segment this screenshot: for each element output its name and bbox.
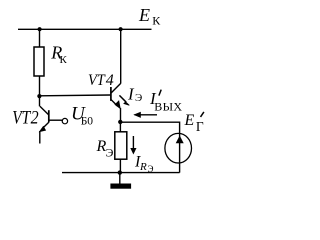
node junction VT4 base / left vertical	[37, 94, 41, 98]
label Eг	[184, 112, 204, 134]
current source Eг circle	[165, 133, 192, 163]
current arrow IRэ	[130, 136, 136, 155]
wire output to source Eг	[120, 122, 179, 134]
node junction bottom / ground	[118, 170, 122, 174]
svg-text:E: E	[138, 5, 150, 25]
current source arrow up	[176, 136, 184, 144]
svg-text:VT: VT	[12, 109, 31, 129]
transistor VT4	[111, 29, 121, 122]
current arrow Iэ	[119, 95, 129, 105]
svg-text:4: 4	[106, 72, 114, 89]
svg-text:К: К	[152, 14, 161, 28]
node junction top rail / Rк	[38, 27, 42, 31]
wire left vertical to Rк	[39, 29, 41, 47]
svg-text:2: 2	[31, 109, 39, 129]
label IRэ	[134, 153, 154, 174]
svg-text:Э: Э	[135, 92, 142, 104]
svg-text:Э: Э	[106, 146, 114, 160]
svg-text:Г: Г	[196, 119, 204, 134]
transistor VT2	[40, 106, 68, 143]
svg-text:Э: Э	[148, 164, 154, 174]
wire VT4 base	[40, 94, 111, 97]
svg-text:E: E	[184, 112, 195, 129]
label Rк	[50, 43, 67, 67]
wire emitter node to Rэ	[119, 122, 121, 132]
wire Rк bottom to VT2 collector	[39, 76, 41, 106]
label Rэ	[96, 138, 114, 160]
resistor Rэ	[115, 132, 127, 159]
wire bottom rail	[62, 172, 180, 174]
label Uб0	[71, 103, 93, 127]
svg-text:VT: VT	[88, 72, 106, 89]
current arrow I'вых	[133, 112, 157, 118]
label Iэ	[127, 84, 142, 104]
svg-text:Б0: Б0	[81, 116, 94, 128]
node junction VT4 emitter / Rэ / output	[118, 120, 122, 124]
wire Rэ bottom to ground rail	[119, 159, 121, 172]
node junction top rail / VT4 collector	[119, 27, 123, 31]
svg-text:R: R	[139, 161, 147, 173]
svg-text:I: I	[127, 84, 135, 103]
label I'вых	[149, 89, 182, 114]
resistor Rк	[34, 47, 44, 76]
svg-text:К: К	[60, 54, 68, 66]
wire top rail Ек	[18, 28, 152, 30]
wire through source to bottom	[179, 134, 181, 173]
ground	[110, 173, 131, 189]
label Ек	[138, 5, 161, 28]
svg-text:ВЫХ: ВЫХ	[154, 100, 182, 114]
terminal circle Uб0	[62, 118, 67, 123]
